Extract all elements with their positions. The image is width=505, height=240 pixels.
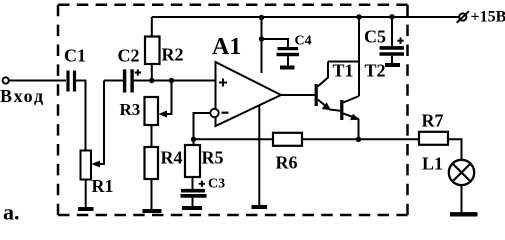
capacitor C4: [277, 34, 312, 66]
svg-text:R3: R3: [120, 100, 141, 119]
svg-text:T1: T1: [333, 61, 354, 81]
node dot rail T2: [356, 14, 361, 19]
svg-text:C3: C3: [208, 177, 225, 192]
wire T2 collector to top rail: [358, 17, 360, 96]
wire feedback node to R6: [194, 138, 274, 140]
svg-text:R6: R6: [276, 153, 298, 173]
resistor R6: [273, 133, 302, 173]
svg-text:Вход: Вход: [0, 86, 45, 106]
svg-text:R1: R1: [92, 176, 114, 196]
svg-text:R2: R2: [162, 45, 184, 65]
node dot T2 emitter junction: [356, 137, 361, 142]
wire C2 to op-amp plus input: [134, 80, 216, 82]
wire wiper to C2: [104, 80, 123, 82]
transistor T2: [342, 61, 386, 140]
node dot feedback junction: [191, 137, 196, 142]
svg-text:C4: C4: [295, 34, 312, 49]
resistor R7: [419, 111, 448, 145]
transistor T1: [316, 61, 353, 111]
wire R4 bottom lead: [151, 179, 153, 210]
input terminal circle: [3, 77, 9, 83]
wire T1 collector to T2 collector rail: [328, 61, 359, 63]
wire R6 to T2 emitter node: [302, 138, 359, 140]
capacitor C1: [64, 46, 86, 92]
top supply rail wire: [152, 16, 459, 18]
capacitor C2 (electrolytic, polarized): [118, 46, 142, 93]
svg-text:C1: C1: [64, 46, 86, 66]
ground L1: [450, 212, 478, 216]
resistor R2: [145, 17, 184, 81]
wire R5 bottom to C3: [192, 177, 194, 189]
wire op-amp output to T1 base: [281, 94, 315, 96]
svg-text:A1: A1: [212, 34, 241, 60]
lamp L1: [422, 154, 474, 186]
capacitor C3 (electrolytic): [181, 177, 226, 206]
wire R1 bottom lead: [85, 180, 87, 208]
node dot top rail at power stub: [259, 15, 264, 20]
wire emitter node to R7: [359, 138, 420, 140]
ground C4: [280, 66, 295, 70]
ground R1: [78, 207, 94, 211]
node dot C4 tap: [259, 36, 264, 41]
wire op-amp ground stub: [258, 100, 260, 205]
svg-text:C5: C5: [364, 27, 386, 47]
ground R4: [143, 209, 162, 213]
wire input to C1: [9, 80, 66, 82]
wire R3 bottom to R4 top: [151, 125, 153, 147]
node dot R2/R3 junction: [149, 78, 154, 83]
svg-text:R5: R5: [202, 148, 224, 168]
resistor R4: [145, 147, 183, 179]
capacitor C5 (electrolytic): [364, 27, 404, 64]
svg-text:L1: L1: [422, 154, 443, 174]
op-amp A1: [210, 34, 281, 126]
svg-text:+15В: +15В: [471, 9, 505, 26]
svg-text:R4: R4: [161, 148, 183, 168]
resistor R3 (potentiometer): [120, 81, 172, 126]
svg-text:R7: R7: [422, 111, 444, 131]
wire C1 to R1 top: [76, 81, 86, 151]
svg-text:T2: T2: [365, 61, 386, 81]
dashed enclosure border: [58, 5, 408, 215]
wire C4 branch: [262, 39, 289, 48]
node dot R3 wiper junction: [169, 78, 174, 83]
wire R7 to lamp L1: [448, 139, 462, 160]
wire op-amp power stub from top rail: [261, 17, 263, 73]
ground op-amp stub: [252, 205, 268, 209]
ground C3: [182, 206, 202, 210]
resistor R1 (potentiometer): [81, 81, 114, 197]
svg-text:C2: C2: [118, 46, 140, 66]
ground C5: [385, 63, 400, 67]
svg-text:а.: а.: [3, 200, 20, 225]
resistor R5: [185, 145, 224, 177]
wire L1 bottom lead: [461, 185, 463, 212]
node dot rail C5: [389, 14, 394, 19]
+15V output terminal: [457, 11, 469, 23]
wire inverting input to feedback node: [194, 113, 211, 145]
wire C5 top lead: [391, 17, 393, 47]
